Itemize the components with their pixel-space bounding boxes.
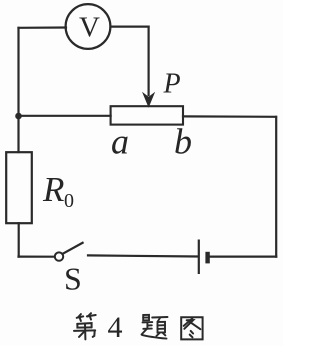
resistor R0 body: [6, 152, 32, 223]
svg-text:4: 4: [108, 311, 123, 344]
wire wiper vertical drop: [148, 27, 150, 95]
left rail vertical (below resistor): [18, 223, 20, 256]
svg-text:P: P: [163, 69, 181, 100]
wire junction to potentiometer left terminal: [19, 115, 111, 117]
caption character 图: [181, 317, 202, 339]
svg-text:R: R: [42, 170, 64, 209]
bottom wire corner to switch circle: [19, 256, 55, 258]
wire potentiometer right terminal to right rail: [183, 115, 276, 118]
wire voltmeter to top-right corner: [111, 26, 149, 28]
left rail vertical (top segment): [17, 28, 19, 152]
switch blade (open): [63, 243, 83, 254]
battery short thick plate (-): [205, 252, 209, 264]
svg-text:0: 0: [64, 190, 74, 212]
caption character 第: [74, 313, 96, 339]
wire top-left horizontal (node to voltmeter): [19, 26, 67, 28]
switch S pivot circle: [55, 252, 63, 260]
svg-text:V: V: [79, 12, 100, 44]
wire battery to right corner: [210, 256, 276, 258]
voltmeter U1 circle: [66, 4, 111, 49]
junction node dot: [15, 113, 22, 120]
potentiometer body rectangle: [111, 106, 183, 124]
svg-text:S: S: [64, 261, 82, 297]
svg-text:b: b: [174, 122, 192, 162]
svg-text:a: a: [111, 122, 129, 162]
right rail vertical wire: [275, 117, 277, 257]
caption character 题: [142, 315, 168, 339]
wiper arrowhead onto potentiometer P: [144, 94, 153, 105]
battery long plate (+): [198, 240, 200, 275]
wire switch to battery: [88, 255, 198, 256]
